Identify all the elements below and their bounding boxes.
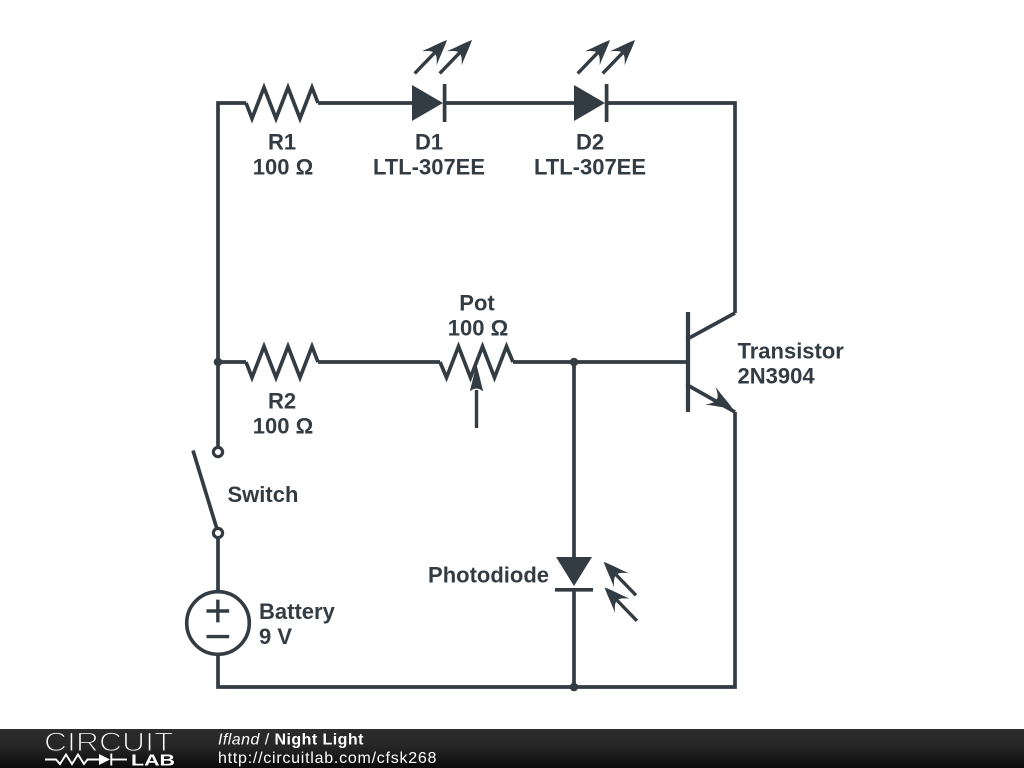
wire: R1 to D1 [318, 101, 412, 105]
label Transistor 2N3904 [738, 339, 845, 389]
wire: Pot to transistor base [513, 360, 686, 364]
svg-text:Transistor: Transistor [738, 339, 845, 364]
svg-text:100 Ω: 100 Ω [253, 155, 313, 180]
label D1 LTL-307EE [373, 130, 485, 180]
svg-text:Ifland / Night Light: Ifland / Night Light [218, 732, 364, 749]
label Photodiode [428, 563, 549, 588]
footer credit: author / title [218, 732, 437, 768]
wire: junction down to photodiode anode [572, 362, 576, 558]
svg-text:9 V: 9 V [259, 624, 292, 649]
svg-text:LAB: LAB [131, 753, 175, 768]
label Battery 9 V [259, 599, 336, 649]
wire: D1 to D2 [446, 101, 574, 105]
label R1 [253, 130, 313, 180]
label D2 LTL-307EE [534, 130, 646, 180]
junction dot at left rail / R2 [214, 358, 223, 367]
potentiometer Pot [440, 347, 513, 429]
svg-text:D2: D2 [576, 130, 604, 155]
resistor R1 [246, 88, 318, 119]
photodiode D3 [555, 555, 644, 628]
svg-text:R2: R2 [268, 389, 296, 414]
svg-text:2N3904: 2N3904 [738, 364, 816, 389]
resistor R2 [246, 347, 318, 378]
wire: emitter down to bottom rail junction [574, 412, 735, 687]
wire: bottom rail to battery negative [218, 655, 574, 687]
LED D2 [570, 33, 642, 122]
svg-text:100 Ω: 100 Ω [448, 316, 508, 341]
svg-text:Photodiode: Photodiode [428, 563, 549, 588]
junction dot at bottom rail / photodiode [570, 683, 579, 692]
wire: photodiode cathode to bottom rail [572, 590, 576, 687]
label Pot 100 ohm [448, 291, 508, 341]
svg-text:100 Ω: 100 Ω [253, 414, 313, 439]
LED D1 [407, 33, 479, 122]
switch SW1 [193, 447, 223, 537]
wire: switch to battery positive [216, 539, 220, 592]
label Switch [228, 482, 299, 507]
svg-text:http://circuitlab.com/cfsk268: http://circuitlab.com/cfsk268 [218, 750, 437, 767]
footer bar [0, 729, 1024, 768]
svg-text:Switch: Switch [228, 482, 299, 507]
svg-text:D1: D1 [415, 130, 443, 155]
svg-text:Pot: Pot [459, 291, 495, 316]
wire: D2 to collector corner [608, 103, 735, 313]
label R2 [253, 389, 313, 439]
svg-text:R1: R1 [268, 130, 296, 155]
svg-text:LTL-307EE: LTL-307EE [534, 155, 646, 180]
svg-text:Battery: Battery [259, 599, 336, 624]
CircuitLab logo schematic squiggle [45, 754, 127, 766]
junction dot at photodiode branch / base wire [570, 358, 579, 367]
transistor Q1 2N3904 [687, 312, 738, 417]
svg-text:LTL-307EE: LTL-307EE [373, 155, 485, 180]
wire: left rail from R1 terminal down to switch [218, 103, 246, 447]
battery V1 [187, 592, 250, 655]
wire: R2 to Pot [318, 360, 440, 364]
wire: left rail to R2 [218, 360, 246, 364]
CircuitLab logo wordmark [44, 727, 175, 768]
